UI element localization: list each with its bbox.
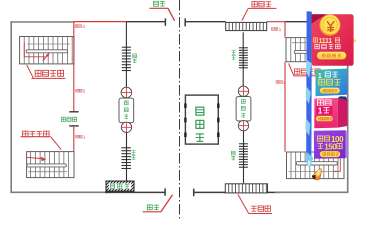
staircase second-passage upper rail line	[27, 43, 70, 45]
center dash-dot divider	[179, 0, 181, 219]
label 入口 green	[132, 150, 136, 154]
ad small button 立即抢购 teal panel	[320, 88, 340, 94]
label 后门 back door green	[153, 1, 158, 6]
staircase first-passage center handrail	[27, 164, 67, 167]
label 第二通道 leader	[27, 65, 34, 78]
wall right-hall bottom grey segment	[275, 191, 348, 193]
ad cyan ribbon tail	[306, 152, 313, 169]
label 扶梯一 leader	[238, 194, 249, 213]
red path mark bottom-right stairs	[333, 159, 340, 172]
ad red panel	[312, 14, 354, 66]
label 售票处 green vertical	[196, 107, 204, 115]
svg-text:1: 1	[318, 71, 322, 80]
escalator two hatched bar	[226, 22, 267, 30]
staircase first-passage box	[27, 152, 74, 178]
turnstile label right 闸机1	[271, 28, 274, 31]
security column circle bottom-left	[121, 122, 131, 132]
staircase third-passage center handrail	[294, 50, 337, 53]
ad pink panel top notch	[338, 96, 348, 100]
wall left-hall bottom dark segment to front door	[105, 191, 165, 193]
svg-text:150: 150	[324, 142, 337, 151]
label 扶梯一 underline	[249, 213, 272, 215]
security column circle top-left	[121, 87, 132, 98]
turnstile label 闸机1	[76, 135, 79, 138]
door jamb tick back-door right	[184, 18, 186, 26]
ad text 定金100	[317, 136, 322, 141]
door jamb tick front-door right	[193, 189, 195, 197]
red walk path in second-passage stairs	[24, 43, 45, 57]
wall right-hall bottom dark segment	[194, 191, 280, 193]
label 第一通道 leader	[51, 137, 62, 150]
spine wall upper left-hall	[125, 22, 127, 48]
ad button 立即抢购 purple panel	[320, 151, 340, 157]
ad blue ribbon strip	[306, 11, 312, 157]
restroom door jamb upper tick	[69, 111, 79, 113]
label 出口 green right	[231, 151, 235, 155]
label 扶梯二 underline	[248, 7, 276, 9]
turnstile label 闸机3	[75, 25, 78, 28]
wall right-hall top dark segment 2	[285, 21, 348, 23]
ad coin yuan symbol	[327, 22, 333, 32]
ad gold coin	[319, 15, 340, 36]
staircase third-passage box top-right	[286, 38, 346, 62]
back door red mark	[150, 7, 169, 9]
red turnstile wall right lower	[284, 62, 286, 152]
label 前门 front door green	[147, 205, 152, 210]
red turnstile wall right upper	[284, 22, 286, 38]
ad pink panel 全场1折 front	[314, 98, 338, 128]
label 扶梯二 leader	[242, 8, 249, 20]
red turnstile wall upper segment	[73, 22, 75, 112]
turnstile label right 闸机2	[276, 81, 279, 84]
restroom label 卫生间	[61, 117, 65, 121]
spine wall upper right-hall	[242, 32, 244, 47]
ad text 百元券 yellow	[319, 79, 325, 85]
red direction arrow second-passage	[43, 54, 49, 60]
label 第一通道 underline	[21, 136, 51, 138]
ad purple panel 定金100抵150元	[314, 130, 346, 159]
wall right-hall top red turnstile segment	[267, 21, 285, 23]
ad text 抵150元	[318, 143, 324, 149]
door jamb tick front-door left	[164, 188, 166, 195]
spine wall mid left-hall	[126, 133, 128, 149]
front door red mark	[143, 211, 161, 213]
label 入口 green right	[232, 50, 236, 54]
ad text 全场	[317, 100, 323, 106]
fire cursor pointer	[311, 166, 324, 181]
red direction arrow first-passage	[41, 157, 46, 162]
label 第三通道 red	[295, 69, 300, 74]
staircase first-passage lower rail line	[28, 171, 67, 173]
red walk path in first-passage stairs	[27, 157, 42, 158]
label 第三通道 underline	[294, 75, 318, 77]
ad text 抢1111元	[313, 38, 317, 42]
svg-text:1: 1	[318, 107, 323, 116]
label 扶梯二 red	[252, 2, 257, 7]
wall left-hall top dark segment to back door	[127, 21, 166, 23]
svg-text:1111: 1111	[319, 38, 333, 45]
restroom door jamb lower tick	[69, 125, 79, 127]
wall left-hall top red turnstile segment 闸机3 row	[74, 21, 127, 23]
staircase second-passage treads	[23, 37, 25, 64]
label 第一通道	[23, 131, 29, 137]
staircase first-passage treads	[30, 152, 32, 178]
ad text 天猫红包	[315, 44, 320, 49]
wall right-hall top dark segment	[185, 21, 226, 23]
ad teal panel 1元秒百元券	[316, 69, 348, 97]
security booth box left 安检处	[119, 98, 134, 123]
label 第二通道 underline	[32, 77, 66, 79]
wall left-hall top grey segment	[10, 21, 73, 23]
label 第三通道 leader	[289, 64, 294, 76]
ad red panel fold	[312, 14, 326, 23]
ad cyan ribbon waves	[306, 60, 312, 78]
ad pink panel side face	[338, 98, 348, 128]
ticket office box 售票处	[185, 95, 218, 144]
label 扶梯一 red	[251, 206, 257, 212]
spine wall mid right-hall	[243, 131, 245, 144]
door jamb tick back-door left	[164, 18, 166, 25]
staircase bottom-right rail line	[288, 171, 338, 173]
red turnstile wall lower segment	[73, 126, 75, 151]
turnstile label 闸机2	[76, 89, 79, 92]
entry escalator ladder upper-right 入口	[239, 47, 248, 49]
label 出口 green	[133, 54, 137, 58]
wall left-hall bottom grey segment	[10, 191, 110, 193]
staircase bottom-right box	[287, 152, 345, 179]
exit escalator ladder upper-left 出口	[122, 46, 131, 48]
entry escalator ladder lower-left 入口	[121, 147, 130, 149]
wall left-hall outer left	[10, 21, 12, 193]
staircase second-passage box	[20, 37, 74, 64]
staircase bottom-right handrail	[296, 162, 337, 165]
kiosk 小卖店 hatched box	[106, 181, 134, 191]
label 第二通道	[35, 70, 41, 76]
security column circle bottom-right	[238, 120, 248, 130]
ad small button pink panel	[316, 116, 333, 121]
security column circle top-right	[238, 86, 248, 96]
staircase third-passage rail line	[292, 42, 342, 44]
ad button 立即领取	[317, 52, 346, 60]
wall right-hall outer right grey	[347, 21, 349, 193]
exit escalator ladder lower-right 出口	[239, 143, 248, 145]
staircase second-passage center handrail	[26, 50, 67, 53]
ad 1折 box	[316, 106, 332, 115]
ad yellow nub	[354, 39, 357, 44]
escalator one hatched bar	[225, 184, 267, 193]
security booth box right	[236, 97, 251, 121]
label 小卖店 green	[110, 184, 114, 188]
